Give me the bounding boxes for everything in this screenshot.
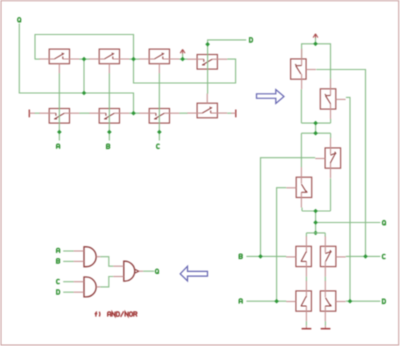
- wire down to R4: [300, 133, 302, 167]
- label B (right circuit): [239, 254, 242, 258]
- wire R3 bottom to mid rail: [330, 178, 332, 211]
- wire bottom rail segment 3: [129, 112, 139, 114]
- wire gnd left link: [305, 321, 307, 326]
- wire R1 gate to C riser: [316, 70, 365, 257]
- wire gate output Q: [143, 270, 154, 272]
- wire gate column B: [108, 73, 110, 140]
- switch T2 (gate B, pull-up row): [89, 49, 129, 73]
- junction D riser: [348, 299, 353, 304]
- wire net B: [246, 255, 286, 257]
- wire AND1 input B: [63, 260, 73, 262]
- nor-gate U3: [113, 261, 143, 281]
- wire R4 gate to A riser: [277, 188, 287, 302]
- label D (right circuit): [383, 299, 386, 303]
- wire pair link: [315, 123, 317, 133]
- wire net D: label wire and drop through T4 to B4 gate: [208, 40, 247, 94]
- label B (left circuit): [107, 144, 110, 148]
- label C (gates): [57, 279, 60, 283]
- node C terminal dot: [157, 130, 162, 135]
- wire R6-R8 link: [324, 277, 326, 282]
- wire net C: [346, 255, 381, 257]
- wire R5-R7 link: [305, 277, 307, 282]
- switch R2 (gate D): [320, 79, 345, 119]
- vcc: [180, 49, 185, 53]
- label Q (gates): [156, 269, 159, 274]
- wire pair rail lower: [301, 132, 330, 134]
- switch T4 (gate D, pull-up row): [187, 55, 227, 70]
- junction lower rail: [313, 231, 318, 236]
- wire gate column C: [158, 73, 160, 140]
- wire Q output: [316, 222, 381, 224]
- wire bottom rail segment 5: [227, 112, 231, 114]
- wire bottom rail segment 1: [35, 112, 40, 114]
- switch B1 (gate A, lower row): [39, 109, 79, 124]
- switch B3 (gate C, lower row): [139, 109, 179, 124]
- wire R2 gate to D riser: [346, 97, 350, 301]
- switch R3 (gate B): [315, 138, 340, 178]
- terminator right bar: [231, 110, 236, 118]
- wire top rail segment 2: [79, 58, 89, 60]
- junction bottom rail: [131, 111, 136, 116]
- switch R7 (gate A): [286, 281, 311, 321]
- switch R8 (gate D): [320, 281, 345, 321]
- terminator left bar: [29, 110, 35, 118]
- wire top split rail: [302, 44, 331, 89]
- switch R5 (gate B): [286, 236, 311, 276]
- label D (gates): [57, 290, 60, 294]
- label C (left circuit): [157, 144, 160, 148]
- wire mid rail: [302, 210, 331, 212]
- wire mid link to Q and lower rail: [315, 211, 317, 233]
- wire top rail segment 1: [35, 58, 40, 60]
- wire down to R6: [324, 233, 326, 237]
- wire R2 bottom to pair rail: [330, 119, 332, 123]
- switch R4 (gate A): [286, 167, 311, 207]
- wire gnd right link: [324, 321, 326, 326]
- wire down to R5: [305, 233, 307, 237]
- wire R3 gate to B riser: [261, 158, 316, 257]
- switch T1 (gate A, pull-up row): [39, 49, 79, 73]
- switch T3 (gate C, pull-up row): [139, 49, 179, 73]
- wire vcc stem to rail: [182, 54, 184, 59]
- junction pair upper: [313, 121, 318, 126]
- wire vcc stem: [315, 38, 317, 44]
- label A (right circuit): [239, 299, 242, 304]
- label Q (right circuit): [383, 221, 386, 226]
- label A (left circuit): [57, 144, 60, 149]
- wire net D (right circuit): [346, 300, 381, 302]
- junction Q tap: [313, 220, 318, 225]
- wire Q net: label to bottom rail: [19, 24, 133, 114]
- junction on Q line: [82, 91, 87, 96]
- label C (right circuit): [382, 254, 385, 258]
- wire bottom rail segment 2: [79, 112, 89, 114]
- wire AND2 input D: [63, 291, 73, 293]
- junction rail node 2-3: [131, 57, 136, 62]
- junction A riser: [274, 299, 279, 304]
- wire R1 bottom to pair rail: [300, 89, 302, 123]
- wire AND2 output to NOR: [100, 277, 113, 287]
- wire lower rail: [306, 232, 325, 234]
- vcc2: [313, 34, 318, 38]
- wire R4 bottom to mid rail: [301, 208, 303, 211]
- junction pair lower: [313, 131, 318, 136]
- wire AND2 input C: [63, 281, 73, 283]
- junction D corner: [205, 42, 210, 47]
- wire AND1 input A: [63, 250, 73, 252]
- ground symbol left: [302, 326, 312, 329]
- switch B4 (gate D, lower row): [187, 94, 227, 118]
- junction B riser: [258, 254, 263, 259]
- node B terminal dot: [107, 130, 112, 135]
- arrow right (to CMOS form): [257, 90, 285, 104]
- junction C riser: [363, 254, 368, 259]
- wire T4 output loop: right pin down and back to rail node: [134, 59, 236, 83]
- caption f) AND/NOR: [95, 312, 98, 317]
- label D (left circuit): [250, 38, 253, 42]
- junction rail node 1-2: [82, 57, 87, 62]
- wire pair rail upper: [301, 122, 330, 124]
- switch R1 (gate C): [291, 49, 316, 89]
- label A (gates): [57, 248, 60, 253]
- label B (gates): [57, 259, 60, 263]
- node A terminal dot: [57, 130, 62, 135]
- junction mid rail: [313, 209, 318, 214]
- label Q (left circuit): [18, 18, 21, 23]
- wire top rail segment 4: [179, 58, 187, 60]
- switch R6 (gate C): [320, 236, 345, 276]
- wire top bypass: T1 left pin over to rail node: [35, 35, 134, 60]
- and-gate U1: [74, 247, 101, 267]
- junction vcc on rail: [180, 57, 185, 62]
- wire bottom rail segment 4: [179, 112, 187, 114]
- wire net A: [246, 300, 286, 302]
- ground symbol right: [321, 326, 331, 329]
- switch B2 (gate B, lower row): [89, 109, 129, 124]
- wire gate column A: [58, 73, 60, 140]
- wire top rail segment 3: [129, 58, 139, 60]
- arrow left (to logic form): [180, 266, 207, 281]
- wire rail node down to Q line: [83, 59, 85, 93]
- junction vcc node: [313, 42, 318, 47]
- wire AND1 output to NOR: [100, 257, 113, 267]
- and-gate U2: [74, 277, 101, 297]
- wire down to R3: [330, 133, 332, 138]
